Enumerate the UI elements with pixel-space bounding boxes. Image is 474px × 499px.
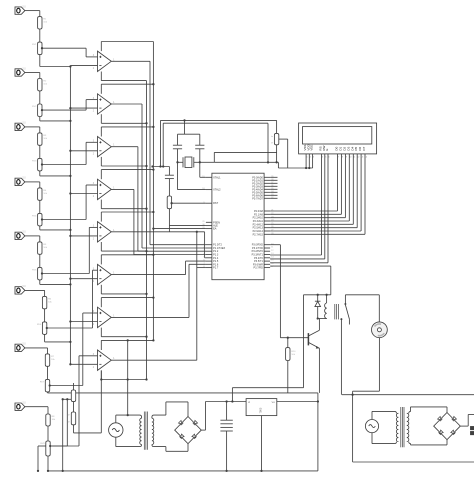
- svg-text:29: 29: [202, 221, 204, 223]
- svg-text:XTAL1: XTAL1: [213, 176, 221, 179]
- svg-text:P2.7/A15: P2.7/A15: [253, 233, 264, 236]
- svg-text:8: 8: [203, 266, 204, 268]
- svg-text:EA: EA: [213, 228, 217, 231]
- svg-text:P0.7/AD7: P0.7/AD7: [252, 197, 263, 200]
- svg-text:6: 6: [203, 260, 204, 262]
- svg-text:RST: RST: [213, 202, 218, 205]
- svg-text:D7: D7: [362, 146, 366, 150]
- svg-text:5: 5: [203, 256, 204, 258]
- svg-text:P1.7: P1.7: [213, 267, 219, 270]
- svg-text:7: 7: [203, 263, 204, 265]
- svg-text:3: 3: [203, 250, 204, 252]
- svg-text:7805: 7805: [258, 407, 262, 413]
- svg-text:E: E: [325, 149, 329, 151]
- svg-text:P3.7/RD: P3.7/RD: [253, 267, 263, 270]
- svg-text:11: 11: [271, 247, 273, 249]
- svg-text:14: 14: [271, 256, 273, 258]
- svg-text:1: 1: [203, 243, 204, 245]
- svg-text:4: 4: [203, 253, 204, 255]
- svg-text:15: 15: [271, 260, 273, 262]
- svg-text:XTAL2: XTAL2: [213, 189, 221, 192]
- svg-text:VO: VO: [272, 402, 275, 404]
- svg-text:VEE: VEE: [310, 145, 314, 151]
- svg-text:12: 12: [271, 250, 273, 252]
- svg-text:2: 2: [203, 247, 204, 249]
